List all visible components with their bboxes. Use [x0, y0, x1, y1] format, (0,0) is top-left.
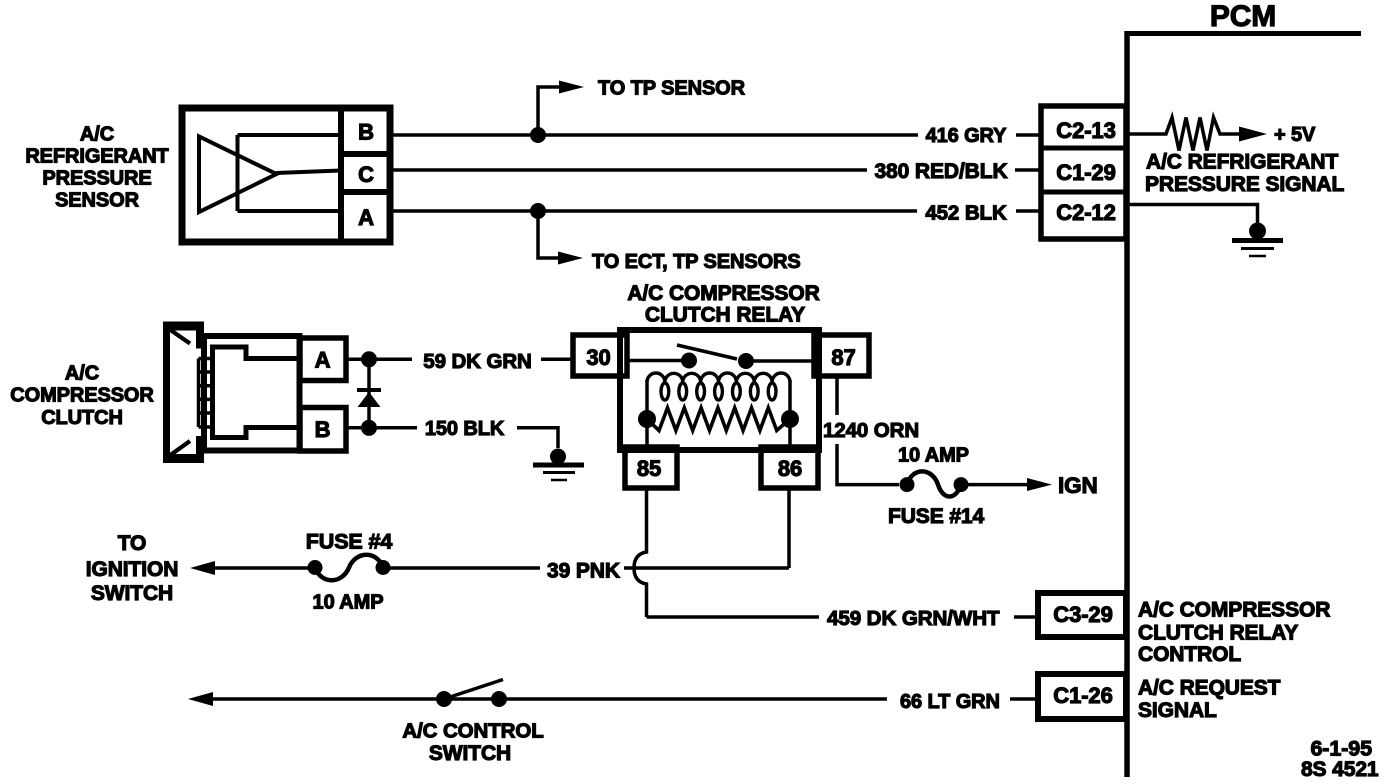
svg-text:59 DK GRN: 59 DK GRN	[423, 350, 531, 373]
svg-text:C2-12: C2-12	[1056, 200, 1115, 225]
svg-text:IGNITION: IGNITION	[86, 558, 179, 581]
svg-text:C: C	[358, 162, 374, 187]
svg-text:380 RED/BLK: 380 RED/BLK	[874, 160, 1007, 183]
svg-text:COMPRESSOR: COMPRESSOR	[10, 385, 154, 407]
svg-text:86: 86	[778, 456, 802, 481]
svg-text:CLUTCH RELAY: CLUTCH RELAY	[1138, 622, 1298, 645]
svg-text:A/C: A/C	[80, 124, 114, 146]
svg-text:B: B	[358, 120, 374, 145]
svg-text:10 AMP: 10 AMP	[898, 445, 969, 467]
svg-text:SENSOR: SENSOR	[55, 190, 140, 212]
svg-text:PCM: PCM	[1210, 0, 1276, 33]
svg-text:SWITCH: SWITCH	[91, 582, 173, 605]
svg-text:10 AMP: 10 AMP	[313, 592, 384, 614]
svg-text:C2-13: C2-13	[1056, 118, 1115, 143]
svg-text:FUSE #14: FUSE #14	[888, 505, 984, 528]
svg-text:66 LT GRN: 66 LT GRN	[900, 691, 1000, 713]
svg-text:8S 4521: 8S 4521	[1301, 758, 1379, 781]
svg-text:PRESSURE: PRESSURE	[42, 168, 151, 190]
svg-text:A: A	[358, 205, 374, 230]
svg-text:39 PNK: 39 PNK	[547, 560, 620, 583]
svg-text:FUSE #4: FUSE #4	[306, 530, 393, 554]
svg-text:6-1-95: 6-1-95	[1310, 737, 1372, 761]
svg-text:CLUTCH: CLUTCH	[41, 407, 123, 429]
svg-text:A/C CONTROL: A/C CONTROL	[402, 720, 543, 743]
svg-text:PRESSURE SIGNAL: PRESSURE SIGNAL	[1145, 173, 1344, 196]
svg-text:TO TP SENSOR: TO TP SENSOR	[598, 78, 746, 100]
svg-text:150 BLK: 150 BLK	[425, 418, 505, 440]
svg-text:A/C COMPRESSOR: A/C COMPRESSOR	[627, 282, 819, 305]
svg-text:416 GRY: 416 GRY	[926, 125, 1008, 147]
svg-text:A/C REQUEST: A/C REQUEST	[1138, 677, 1281, 700]
svg-text:+ 5V: + 5V	[1274, 124, 1316, 146]
svg-text:C1-26: C1-26	[1053, 683, 1112, 708]
svg-text:A/C: A/C	[65, 363, 99, 385]
svg-text:A: A	[315, 348, 331, 373]
svg-text:87: 87	[831, 345, 855, 370]
svg-text:452 BLK: 452 BLK	[925, 202, 1007, 225]
svg-text:TO ECT, TP SENSORS: TO ECT, TP SENSORS	[592, 251, 801, 273]
svg-text:CLUTCH RELAY: CLUTCH RELAY	[645, 304, 805, 327]
svg-text:1240 ORN: 1240 ORN	[823, 419, 919, 442]
svg-text:85: 85	[637, 456, 661, 481]
svg-text:30: 30	[586, 345, 610, 370]
svg-text:TO: TO	[118, 532, 147, 555]
svg-text:CONTROL: CONTROL	[1138, 643, 1241, 666]
svg-text:C3-29: C3-29	[1053, 602, 1112, 627]
svg-text:SWITCH: SWITCH	[429, 742, 511, 765]
svg-text:SIGNAL: SIGNAL	[1138, 699, 1217, 722]
svg-text:REFRIGERANT: REFRIGERANT	[25, 146, 168, 168]
svg-text:C1-29: C1-29	[1056, 160, 1115, 185]
svg-text:IGN: IGN	[1058, 473, 1098, 498]
svg-text:B: B	[315, 417, 331, 442]
svg-text:459 DK GRN/WHT: 459 DK GRN/WHT	[827, 607, 1000, 630]
svg-text:A/C COMPRESSOR: A/C COMPRESSOR	[1138, 599, 1330, 622]
svg-text:A/C REFRIGERANT: A/C REFRIGERANT	[1146, 151, 1338, 174]
